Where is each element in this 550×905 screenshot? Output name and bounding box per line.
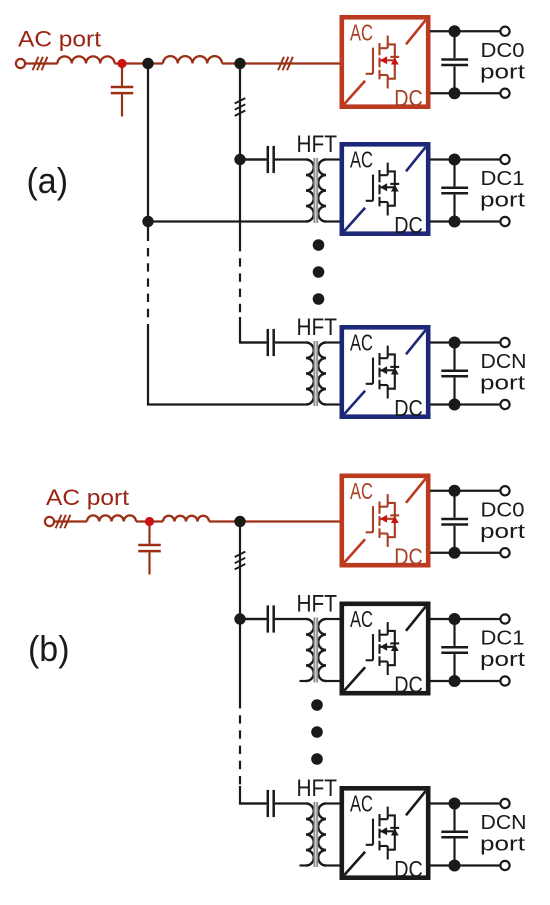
svg-text:HFT: HFT (297, 591, 338, 618)
svg-text:port: port (480, 373, 526, 395)
svg-text:(b): (b) (28, 628, 70, 669)
svg-text:HFT: HFT (297, 775, 338, 802)
svg-text:DCN: DCN (481, 812, 527, 834)
svg-text:port: port (480, 834, 526, 856)
svg-text:DC0: DC0 (481, 40, 525, 62)
svg-text:DC1: DC1 (481, 628, 525, 650)
svg-text:port: port (480, 649, 526, 671)
svg-text:DC: DC (394, 672, 423, 698)
svg-text:AC: AC (350, 147, 373, 173)
svg-text:AC: AC (350, 478, 373, 504)
svg-text:port: port (480, 521, 526, 543)
svg-text:DC: DC (394, 85, 423, 111)
svg-text:AC: AC (350, 606, 373, 632)
svg-text:DC0: DC0 (481, 499, 525, 521)
svg-text:AC: AC (350, 20, 373, 46)
svg-text:HFT: HFT (297, 314, 338, 341)
svg-text:DC: DC (394, 395, 423, 421)
svg-text:DCN: DCN (481, 351, 527, 373)
svg-text:HFT: HFT (297, 131, 338, 158)
svg-text:port: port (480, 61, 526, 83)
svg-text:DC: DC (394, 212, 423, 238)
svg-text:DC1: DC1 (481, 168, 525, 190)
svg-text:(a): (a) (27, 160, 69, 201)
svg-text:AC: AC (350, 791, 373, 817)
svg-text:port: port (480, 190, 526, 212)
svg-text:AC port: AC port (18, 27, 102, 52)
svg-text:DC: DC (394, 856, 423, 882)
svg-text:AC port: AC port (46, 485, 130, 510)
svg-text:AC: AC (350, 330, 373, 356)
svg-text:DC: DC (394, 544, 423, 570)
